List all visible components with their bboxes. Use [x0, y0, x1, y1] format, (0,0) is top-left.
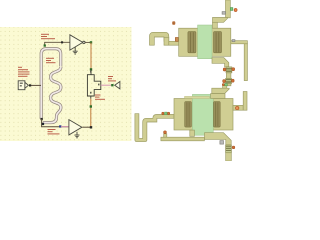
layout stage2 pad row green	[165, 112, 168, 115]
layout stage2 oval on right arm	[236, 106, 239, 109]
layout stage1 cap band right	[214, 32, 222, 53]
wire pink into op-amp A2	[61, 126, 69, 128]
wire stub tee pin 2	[90, 96, 92, 99]
wire tube bottom to op-amp A2	[42, 119, 69, 127]
ground below op-amp A2	[75, 132, 80, 138]
layout stage1 gray pad on arm	[232, 40, 235, 42]
node E green at port P2	[111, 84, 113, 86]
schematic grid dots	[0, 27, 132, 141]
schematic background	[0, 27, 132, 141]
layout stage2 feed stub top	[223, 84, 227, 88]
layout stage2 pad row orange B	[168, 112, 170, 114]
layout stage1 green pad	[230, 8, 232, 11]
wire tee pin3 to port P2 pink	[101, 84, 112, 86]
wire port1 to tube	[30, 84, 41, 86]
red text label below tee	[95, 95, 105, 100]
port P1 symbol	[18, 81, 28, 90]
node A green	[44, 44, 46, 46]
red text label at tee port 3	[108, 76, 116, 81]
tee pin labels	[90, 71, 99, 94]
layout stage1 output strip	[244, 44, 247, 81]
layout stage2 cap band right	[214, 102, 221, 128]
layout stage1 left crook arm	[150, 32, 169, 45]
op-amp A1	[70, 35, 85, 50]
layout stage1 marker pad top-left	[173, 22, 176, 25]
node G at tube bottom end	[41, 118, 43, 120]
layout stage1 via cap 1	[226, 67, 232, 73]
wire stub into tee pin 1	[90, 70, 92, 75]
layout stage1 via stub brown	[175, 38, 178, 42]
node I blue on wire	[59, 125, 61, 127]
wire vertical orange to tee	[90, 43, 92, 70]
node F green mid wire	[90, 105, 92, 107]
layout stage2 below-bar stub with miter	[205, 133, 232, 145]
layout stage2 green pad on feed stub	[225, 84, 228, 86]
node at port P1 wire	[29, 84, 31, 86]
layout stage2 gray pad	[220, 141, 224, 145]
layout stage1 marker circle top-right	[234, 9, 237, 12]
wire op-amp A1 output	[85, 41, 91, 43]
ground below op-amp A1	[73, 47, 78, 54]
layout stage1 cap1 pad left	[223, 68, 226, 71]
layout stage1 via cap 2	[226, 78, 232, 84]
node C green at op-amp A1 output	[90, 41, 92, 43]
layout stage1 cap1 pad right	[232, 68, 235, 71]
layout stage2 thin strip above bar	[185, 96, 210, 98]
layout stage2 output strip down	[226, 145, 232, 161]
layout stage2 feed piece A with miter	[212, 88, 229, 93]
layout stage2 feed piece B	[211, 94, 225, 99]
wire vertical orange tee to op-amp A2 output	[90, 99, 92, 128]
red text label SUBCKT S1 top	[41, 34, 55, 39]
red text label SUBCKT bottom	[48, 129, 60, 134]
layout stage1 top riser left leg	[213, 22, 218, 28]
layout stage1 below-bar stub with miter	[212, 58, 229, 67]
layout stage1 end stub	[226, 84, 231, 86]
layout stage2 orange pad at bottom feed	[164, 131, 167, 134]
layout stage2 small stub below green	[190, 130, 195, 136]
layout stage1 mid strip	[226, 73, 231, 78]
layout stage2 cap band left	[185, 102, 192, 128]
layout stage2 orange pad	[232, 146, 235, 149]
layout stage2 input strip up	[243, 92, 247, 111]
layout stage1 cap2 pad left	[223, 80, 226, 83]
layout stage2 main bar	[174, 99, 233, 131]
layout stage2 meander serpentine feed	[135, 114, 174, 142]
layout stage2 pad row orange A	[162, 112, 164, 114]
node B dark on wire	[61, 41, 63, 43]
layout stage1 top riser horizontal with miter	[213, 18, 228, 23]
layout stage1 green mesa	[198, 25, 212, 59]
port P2 symbol	[115, 82, 120, 89]
wire op-amp A2 output	[82, 126, 91, 128]
layout stage1 cap2 pad right	[232, 79, 235, 82]
layout stage2 right arm	[233, 105, 243, 110]
node H at serpentine end	[42, 123, 44, 125]
red text label SUBCKT S2 inside loop	[46, 58, 56, 63]
layout stage1 main bar	[179, 28, 231, 56]
layout stage1 right leg of crook	[164, 37, 169, 45]
wire node A to op-amp A1	[45, 42, 70, 45]
layout stage2 via cap in output strip	[226, 145, 232, 153]
layout stage2 orange pad on feed stub	[222, 84, 224, 86]
tee junction T1	[87, 75, 100, 96]
layout stage1 top riser vertical	[226, 0, 231, 18]
op-amp A2	[69, 120, 82, 135]
layout stage2 bottom feed stub up	[164, 134, 167, 137]
curved transmission line tube (loop + serpentine) outline	[41, 49, 61, 123]
node J at op-amp A2 output	[90, 126, 92, 128]
red text label MSUB near port	[18, 67, 30, 77]
layout stage1 cap band left	[188, 32, 196, 53]
node D green above tee	[90, 68, 92, 70]
layout stage2 bottom feed line	[161, 137, 205, 141]
layout stage1 gate pad gray	[222, 12, 225, 15]
layout stage1 right arm	[231, 41, 248, 44]
layout stage1 input connector	[169, 41, 180, 45]
layout stage2 green mesa	[192, 94, 213, 135]
